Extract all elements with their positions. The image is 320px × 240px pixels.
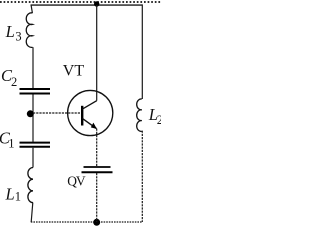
svg-text:L: L bbox=[5, 185, 15, 204]
wire bottom bus bbox=[31, 221, 143, 223]
wire right rail lower bbox=[141, 131, 143, 222]
wire left rail top stub bbox=[31, 5, 32, 13]
crystal QV bbox=[82, 167, 113, 172]
transistor VT base bar bbox=[81, 106, 83, 126]
wire left rail between C2 and C1 bbox=[32, 95, 34, 142]
transistor VT envelope circle bbox=[68, 90, 113, 135]
wire emitter rail bbox=[96, 129, 98, 167]
inductor L3 bbox=[26, 13, 32, 47]
inductor L1 bbox=[28, 168, 33, 203]
svg-text:2: 2 bbox=[11, 75, 17, 89]
capacitor C1 bbox=[20, 143, 51, 147]
transistor VT emitter lead bbox=[82, 118, 96, 128]
transistor VT emitter arrowhead bbox=[91, 123, 97, 129]
wire below crystal bbox=[96, 173, 98, 222]
node base junction bbox=[27, 110, 34, 117]
svg-text:V: V bbox=[76, 174, 86, 189]
node bottom junction bbox=[93, 219, 100, 226]
wire collector rail bbox=[96, 5, 98, 101]
svg-text:1: 1 bbox=[15, 190, 21, 204]
svg-text:L: L bbox=[5, 22, 15, 41]
wire left rail bottom stub bbox=[31, 203, 33, 222]
node top junction bbox=[94, 1, 99, 6]
svg-text:1: 1 bbox=[8, 137, 14, 151]
inductor L2 bbox=[137, 99, 142, 132]
wire top bus bbox=[31, 4, 143, 6]
transistor VT collector lead bbox=[82, 101, 97, 110]
wire right rail upper bbox=[141, 4, 143, 99]
wire left rail between L3 and C2 bbox=[32, 47, 34, 88]
svg-text:VT: VT bbox=[63, 63, 85, 80]
svg-text:3: 3 bbox=[15, 29, 21, 43]
capacitor C2 bbox=[20, 89, 51, 94]
svg-text:2: 2 bbox=[157, 113, 161, 127]
transistor VT bbox=[68, 90, 113, 135]
wire left rail between C1 and L1 bbox=[32, 148, 34, 168]
wire base bbox=[33, 112, 82, 114]
